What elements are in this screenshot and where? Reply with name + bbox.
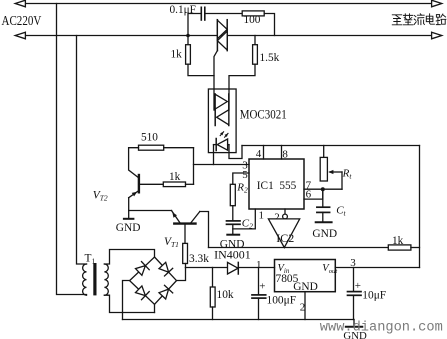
transformer T1 primary winding (83, 264, 87, 295)
wire snubber right leg to line2 (264, 14, 274, 36)
wire 555 pin 5 (233, 173, 249, 184)
wire 1k drop from node (187, 36, 189, 45)
potentiometer RP (320, 157, 342, 189)
svg-text:AC220V: AC220V (2, 13, 42, 28)
label CJK char liu (414, 14, 424, 25)
svg-text:1k: 1k (392, 235, 404, 247)
wire cap to resistor 100 (205, 13, 242, 15)
transistor VT2 (PNP) (129, 175, 164, 198)
svg-text:1: 1 (259, 210, 265, 222)
svg-text:IC2: IC2 (276, 231, 294, 245)
wire 7805 pin2 to ground rail (304, 292, 306, 320)
svg-text:1.5k: 1.5k (260, 52, 280, 64)
node junction on line2 (snubber tap) (186, 34, 190, 38)
ground bottom right (346, 320, 363, 327)
LED emission arrows inside MOC (220, 132, 228, 137)
IC U1 555 timer box (249, 159, 304, 209)
wire left vertical from line1 to transformer primary bottom (57, 4, 87, 295)
resistor 1k (pull-up) (388, 245, 411, 250)
bridge diode D4 (159, 285, 173, 299)
wire 555 pin 3 to junction (194, 164, 250, 166)
wire bridge minus to ground rail (123, 281, 130, 320)
resistor R2 (230, 184, 235, 205)
wire VT1 collector to IC2 input line (200, 212, 209, 248)
wire Rp top lead from rail (323, 146, 325, 158)
svg-text:IC1 555: IC1 555 (257, 178, 297, 192)
wire junction to Ct (322, 189, 324, 207)
wire AC line 1 (top) (15, 0, 442, 7)
regulator 7805 box (275, 260, 336, 292)
wire 100uF bottom (258, 298, 260, 319)
ground under C2 (227, 234, 239, 236)
svg-text:0.1μF: 0.1μF (170, 4, 196, 16)
wire IC2 output line to 1k (209, 247, 389, 249)
svg-text:GND: GND (116, 222, 141, 234)
svg-text:www.diangon.com: www.diangon.com (320, 321, 443, 336)
wire AC line 2 (15, 32, 442, 39)
wire 100uF top lead (258, 268, 260, 295)
bridge diode D3 (136, 286, 150, 300)
transformer T1 core (93, 263, 96, 295)
wire 7805 pin3 output line (335, 267, 419, 269)
capacitor Ct (317, 207, 330, 212)
capacitor C2 (227, 221, 241, 224)
bridge diode D2 (159, 262, 173, 276)
wire 555 pin 8 stub (281, 146, 283, 160)
ground under VT2 (124, 211, 133, 219)
transformer T1 secondary winding (104, 264, 108, 295)
wire left vertical from line2 to transformer primary top (77, 36, 87, 265)
wire LED cathode pin down to pin3 line (213, 145, 215, 165)
wire Vcc rail (242, 145, 420, 147)
optocoupler MOC3021 box (208, 89, 236, 153)
wire 555 pin 2 stub (284, 209, 286, 214)
wire 555 pin 6 (304, 189, 323, 199)
label CJK char zheng (403, 14, 413, 25)
svg-text:510: 510 (141, 131, 158, 143)
label CJK char zhi (392, 15, 401, 25)
wire 1.5k to MOC right pin (229, 64, 255, 89)
capacitor 100uF (252, 295, 266, 298)
svg-text:100μF: 100μF (267, 295, 297, 307)
svg-text:1k: 1k (171, 49, 183, 61)
svg-text:MOC3021: MOC3021 (240, 107, 287, 122)
resistor 1k (base VT2) (163, 182, 185, 187)
wire 1.5k top (254, 36, 256, 45)
bridge rectifier diamond (130, 257, 177, 304)
wire secondary bottom lead (104, 295, 154, 312)
triac inside MOC (214, 89, 229, 126)
transistor VT1 (NPN) (172, 211, 200, 224)
wire ground rail bottom (123, 319, 355, 321)
wire junction vertical (pin3 node) (193, 148, 195, 185)
wire snubber riser (188, 14, 201, 36)
svg-text:100: 100 (244, 14, 261, 26)
wire bridge plus to DC node (177, 268, 186, 281)
resistor 100 (242, 11, 264, 16)
svg-text:+: + (259, 280, 265, 292)
triac VS main (217, 20, 227, 51)
resistor 3.3k (183, 243, 188, 263)
svg-text:3.3k: 3.3k (189, 253, 209, 265)
resistor 1k (snubber leg) (186, 45, 191, 64)
capacitor 10uF (348, 292, 362, 296)
resistor 10k (210, 287, 215, 307)
wire secondary top lead (104, 250, 154, 265)
label CJK char lu (436, 14, 446, 25)
wire 1k to gate junction (188, 64, 214, 75)
svg-text:1k: 1k (169, 171, 181, 183)
svg-text:+: + (355, 280, 361, 292)
wire LED anode pin to Vcc rail (229, 145, 242, 159)
wire R2 to C2 (232, 206, 234, 221)
wire emitter bus VT2 to VT1 (129, 210, 172, 212)
bridge diode D1 (136, 262, 150, 276)
wire VT1 base down (184, 225, 186, 244)
svg-text:10μF: 10μF (362, 290, 386, 302)
svg-text:10k: 10k (217, 289, 234, 301)
wire 510 left lead to VT2 collector (129, 148, 139, 178)
wire 1k to right rail (411, 247, 420, 249)
svg-text:6: 6 (306, 189, 312, 201)
wire Ct to ground (322, 212, 324, 222)
resistor 510 (139, 145, 164, 150)
LED inside MOC (214, 139, 230, 151)
svg-text:4: 4 (256, 148, 262, 160)
wire diode to 7805 Vin (238, 267, 274, 269)
wire 10uF bottom (353, 295, 355, 319)
diode IN4001 (228, 262, 239, 274)
wire 555 pin 4 stub (263, 146, 265, 160)
svg-text:2: 2 (300, 302, 306, 314)
svg-text:5: 5 (242, 169, 248, 181)
resistor 1.5k (253, 45, 258, 64)
wire 10k bottom to ground rail (212, 307, 214, 320)
wire DC line to diode (186, 267, 228, 269)
wire 10k top lead (212, 268, 214, 288)
wire triac gate (214, 51, 217, 89)
ground under Ct (316, 221, 332, 223)
inverter IC2 bubble (283, 214, 288, 219)
wire 3.3k bottom to DC node (185, 264, 187, 268)
wire C2 to ground (232, 224, 234, 234)
capacitor 0.1uF (201, 7, 205, 20)
inverter IC2 triangle (268, 219, 299, 248)
wire VT2 emitter down to GND junction (128, 198, 130, 211)
wire bridge bottom stub (154, 304, 156, 312)
svg-text:IN4001: IN4001 (214, 249, 251, 262)
wire 510 right lead (164, 147, 194, 149)
wire 555 pin 7 (304, 188, 342, 190)
label CJK char dian (426, 14, 434, 24)
wire 10uF top lead (353, 268, 355, 292)
svg-text:GND: GND (312, 228, 337, 240)
node pins 6-7 junction (321, 187, 325, 191)
wire 555 pin 1 to ground node (233, 209, 256, 229)
wire 1k right lead (186, 183, 194, 185)
wire right vertical rail (419, 146, 421, 268)
